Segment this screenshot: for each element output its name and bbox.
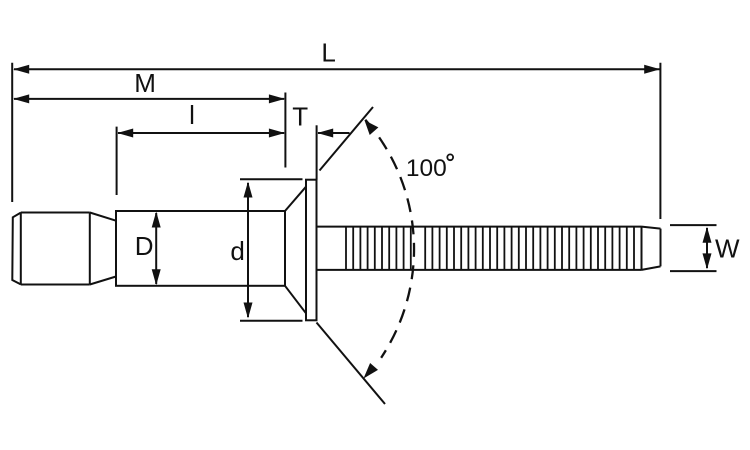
dimension L extension line left [11,63,13,202]
dimension L line with arrows [13,65,660,74]
svg-text:W: W [715,234,740,264]
stem end taper [642,227,661,270]
dimension M line with arrows [13,94,285,103]
svg-text:100: 100 [406,155,447,182]
angle arc arrow upper [365,120,379,135]
dimension D arrow [152,212,161,286]
mandrel head (left knob) [12,213,90,285]
rivet body (sleeve, diameter D) [116,211,285,286]
svg-text:L: L [321,38,335,68]
dimension d extension lines [240,179,303,321]
countersink angle lower extension line [317,323,386,405]
countersink angle upper extension line [320,107,374,171]
dimension l extension line [116,127,118,195]
taper from mandrel head to body [90,213,116,285]
svg-text:D: D [135,231,154,261]
dimension L extension line right [659,63,661,219]
svg-text:d: d [230,236,244,266]
label 100 degrees [406,154,453,181]
svg-text:M: M [134,68,156,98]
head face (diameter d) [306,180,317,321]
svg-text:l: l [189,100,195,130]
dimension T extension line [316,125,318,179]
stem serrations [346,227,634,270]
dimension d arrow [244,182,253,319]
dimension l line with arrows [117,129,285,138]
angle arc arrow lower [364,363,379,379]
dimension W arrow [703,227,712,270]
angle arc (dashed) [365,120,414,358]
mandrel stem outline [317,227,642,270]
dimension W extension lines [670,225,717,271]
svg-text:T: T [292,101,308,131]
dimension T arrow and leader [317,129,349,138]
countersunk head cone [285,187,306,314]
dimension M extension line [284,93,286,168]
